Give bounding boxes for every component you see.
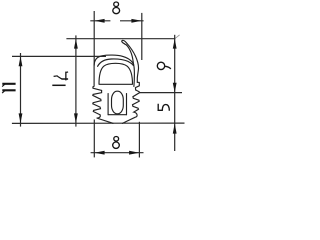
wire: faint tick at right end of top extension: [175, 35, 179, 38]
wire: channel base inner line: [108, 114, 126, 116]
wire: top extension line y=38.7 (for 14 and 9): [66, 38, 175, 40]
wire: hook outer edge incl. tip cap down to right flange: [122, 40, 139, 82]
text: 8 top (drawn as two loops): [114, 2, 119, 7]
text: 14 left (rotated 1 and 4 drawn as strokes): [52, 72, 68, 86]
wire: left leg inner wall: [107, 94, 109, 115]
arrow: top 8 right (points right): [131, 19, 141, 23]
arrow: bottom 8 right (points right): [129, 151, 139, 155]
arrow: 11 top (points up): [19, 56, 23, 66]
arrow: 9 bottom / 5 top shared (points down): [173, 83, 177, 93]
wire: hook inner edge from dip up to tip: [124, 44, 133, 65]
dimension line: top 8, left segment: [90, 20, 110, 22]
text: 5 right (rotated, bar + bowl): [158, 104, 162, 111]
wire: mid-right extension line y=92.6 (for 9/5): [140, 92, 182, 94]
wire: canopy outer arc from left wall over the top, then dome right wall down to flange: [94, 55, 134, 86]
arrow: 9 top (points up): [173, 39, 177, 49]
arrow: 5 bottom outside (points up): [173, 123, 177, 133]
dimension line: 9/5 vertical at x=174.7: [174, 35, 176, 151]
transistor-like bulb: inner dome D-shape: [99, 63, 133, 84]
arrow: 14 top (points up): [74, 39, 78, 49]
wire: baseline y=123.3: [12, 122, 185, 124]
capacitor-like oval hole O: [112, 91, 124, 114]
arrow: top 8 left (points left): [94, 19, 104, 23]
dimension line: bottom 8: [91, 152, 144, 154]
wire: left leg outer barbed edge (3 teeth): [93, 90, 113, 123]
wire: right flange end step: [135, 82, 139, 90]
wire: right vertical extension x=141.8 (top 8 right): [141, 13, 143, 60]
arrow: bottom 8 left (points left): [94, 151, 104, 155]
wire: bottom 8 left extension x=94.3: [93, 120, 95, 158]
dimension line: top 8, right segment: [120, 20, 144, 22]
dimension line: 14 vertical at x=75.9: [75, 35, 77, 126]
text: 11 left (two rotated 1 glyphs drawn as strokes): [2, 84, 16, 93]
wire: extension line y=56.3 (for 11): [12, 55, 106, 57]
arrow: 11 bottom (points down): [19, 113, 23, 123]
wire: right leg outer barbed edge (3 teeth): [122, 90, 139, 123]
text: 9 right (rotated, bowl + tail): [157, 62, 164, 69]
dimension line: 11 vertical at x=20.5: [20, 53, 22, 127]
wire: left vertical extension x=94.2 (top 8 left): [93, 11, 95, 65]
text: 8 bottom: [114, 137, 119, 142]
seal profile outline: [93, 40, 140, 123]
arrow: 14 bottom (points down): [74, 113, 78, 123]
wire: canopy inner (underside) arc: [98, 59, 134, 66]
wire: right leg inner wall: [126, 94, 128, 115]
wire: bottom 8 right extension x=139.4: [138, 122, 140, 158]
wire: left outer wall of profile: [93, 65, 102, 91]
